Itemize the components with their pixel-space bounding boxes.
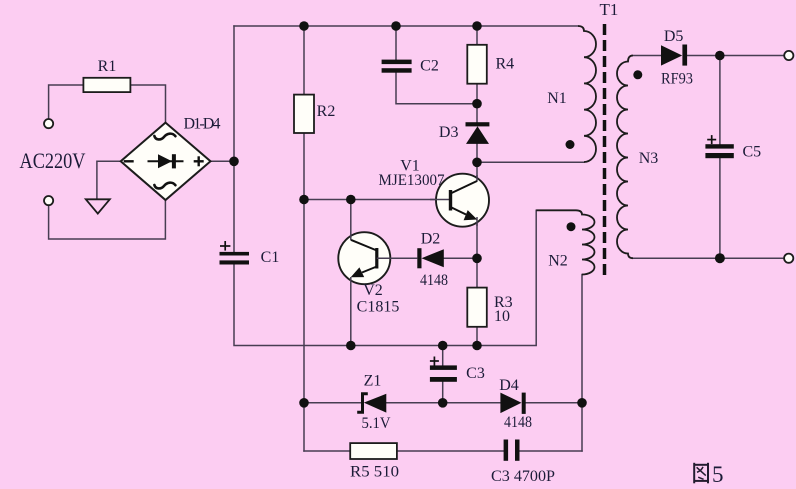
resistor R2 — [294, 95, 314, 133]
svg-text:C3: C3 — [466, 365, 485, 382]
wire R4 top lead — [476, 26, 478, 45]
wire bottom rail middle — [397, 450, 504, 452]
wire V1 base — [304, 199, 451, 201]
wire zener row left — [304, 402, 361, 404]
junction Z1 wire left — [299, 398, 309, 408]
transformer T1 core — [603, 24, 607, 275]
wire R2 bottom long vertical to bottom rail — [303, 133, 305, 451]
node N2 phase dot — [567, 222, 576, 231]
diode D5 — [661, 45, 687, 66]
wire D3 to V1 collector node — [476, 144, 478, 181]
wire N3 top to D5 — [632, 55, 661, 57]
junction R3 bottom / mid rail — [472, 341, 482, 351]
svg-text:D4: D4 — [499, 377, 519, 394]
junction C2 bottom / R4 bottom — [472, 99, 482, 109]
node N3 phase dot — [633, 70, 642, 79]
resistor R4 — [467, 45, 487, 84]
wire R4 bottom to D3 — [476, 84, 478, 123]
svg-text:C1815: C1815 — [357, 299, 400, 316]
wire top rail — [234, 25, 578, 27]
capacitor C3 electrolytic — [430, 365, 457, 381]
svg-text:R4: R4 — [496, 56, 515, 73]
node N1 phase dot — [566, 140, 575, 149]
wire zener row middle — [386, 402, 500, 404]
svg-text:4148: 4148 — [504, 414, 532, 431]
AC terminal bottom — [44, 196, 53, 205]
wire V2 collector up — [350, 200, 352, 241]
winding N2 — [536, 210, 594, 274]
zener Z1 — [357, 394, 386, 413]
winding N1 — [578, 26, 596, 162]
svg-text:AC220V: AC220V — [20, 148, 86, 173]
wire R2 top lead — [303, 26, 305, 95]
junction D4 cathode / N2 bottom — [577, 398, 587, 408]
AC terminal top — [44, 119, 53, 128]
junction C3 top / mid rail — [438, 341, 448, 351]
svg-text:RF93: RF93 — [661, 71, 693, 88]
svg-text:C3 4700P: C3 4700P — [491, 468, 555, 485]
wire C3 top lead — [442, 346, 444, 366]
ground — [86, 199, 110, 213]
winding N3 — [617, 56, 633, 259]
svg-text:D1-D4: D1-D4 — [184, 116, 221, 133]
wire D5 cathode to output — [687, 55, 784, 57]
svg-text:R5 510: R5 510 — [350, 464, 399, 481]
junction V2 emitter / mid rail — [346, 341, 356, 351]
wire C5 top lead — [719, 56, 721, 145]
wire C2 bottom lead to R4 column — [396, 73, 477, 104]
bridge rectifier D1-D4 — [121, 123, 211, 200]
svg-text:10: 10 — [494, 308, 510, 325]
output terminal bottom — [784, 254, 793, 263]
wire zener row right — [526, 402, 582, 404]
junction V2 collector / V1 base wire — [346, 195, 356, 205]
junction R2 bottom / V1 base wire — [299, 195, 309, 205]
svg-text:N3: N3 — [639, 150, 659, 167]
svg-text:T1: T1 — [600, 0, 619, 19]
wire R3 top lead — [476, 258, 478, 287]
wire output bottom rail — [633, 257, 784, 259]
wire bridge output to left rail — [211, 160, 235, 162]
wire top AC terminal to R1 — [49, 85, 84, 119]
wire left rail top (bridge node up to top rail) — [233, 26, 235, 252]
capacitor C3 4700P — [504, 440, 520, 461]
transistor V1 — [430, 174, 489, 227]
label figure 5 — [694, 463, 708, 484]
junction C3 bottom / zener wire — [438, 398, 448, 408]
junction R2 top rail — [299, 21, 309, 31]
svg-text:C2: C2 — [420, 58, 439, 75]
svg-text:R1: R1 — [98, 58, 117, 75]
svg-text:D2: D2 — [421, 231, 441, 248]
svg-text:5: 5 — [712, 462, 724, 487]
svg-text:N1: N1 — [547, 90, 567, 107]
wire bottom rail left — [304, 450, 350, 452]
junction R4 top rail — [472, 21, 482, 31]
wire V2 emitter down — [350, 277, 352, 346]
resistor R5 — [350, 443, 397, 459]
junction D5 cathode / C5 top — [715, 51, 725, 61]
junction C5 bottom / output rail — [715, 253, 725, 263]
svg-text:5.1V: 5.1V — [362, 415, 391, 432]
junction bridge output node — [229, 157, 239, 167]
svg-text:C1: C1 — [261, 249, 280, 266]
capacitor C2 — [382, 60, 412, 73]
wire bottom rail right — [520, 450, 583, 452]
junction C2 top rail — [391, 21, 401, 31]
resistor R1 — [83, 78, 130, 92]
wire bridge left to ground — [97, 161, 121, 199]
transistor V2 — [338, 232, 390, 284]
wire V2 base to D2 — [377, 257, 418, 259]
svg-text:R2: R2 — [317, 103, 336, 120]
wire C2 top lead — [395, 26, 397, 60]
wire left rail below C1 to mid rail and up to N2 — [234, 210, 536, 345]
svg-text:C5: C5 — [743, 144, 762, 161]
capacitor C5 — [705, 144, 733, 158]
svg-text:D5: D5 — [664, 28, 684, 45]
wire N2 bottom vertical — [581, 275, 583, 452]
wire R3 bottom lead — [476, 327, 478, 346]
svg-text:MJE13007: MJE13007 — [379, 172, 445, 189]
svg-text:Z1: Z1 — [364, 373, 382, 390]
diode D2 — [417, 248, 444, 268]
resistor R3 — [467, 288, 487, 327]
wire C5 bottom lead — [719, 158, 721, 258]
output terminal top — [784, 51, 793, 60]
svg-text:V2: V2 — [363, 282, 383, 299]
wire R1 to bridge top — [130, 85, 165, 123]
wire C3 bottom lead — [442, 382, 444, 403]
svg-text:N2: N2 — [548, 253, 568, 270]
wire collector node to N1 bottom — [477, 161, 584, 163]
svg-text:4148: 4148 — [420, 272, 448, 289]
diode D3 — [466, 122, 490, 144]
wire bottom AC terminal to bridge bottom — [49, 200, 166, 239]
junction V1 emitter / D2 / R3 top — [472, 253, 482, 263]
diode D4 — [500, 393, 525, 414]
capacitor C1 — [220, 252, 250, 265]
junction D3 anode / N1 bottom / V1 collector — [472, 158, 482, 168]
svg-text:D3: D3 — [439, 124, 459, 141]
wire V1 emitter down to D2 node — [476, 219, 478, 258]
wire D2 to emitter node — [444, 257, 477, 259]
